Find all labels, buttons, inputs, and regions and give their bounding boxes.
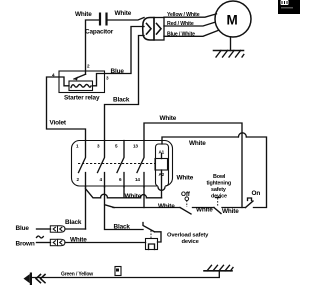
starter relay K2 <box>59 71 105 93</box>
wire pin2 to A2 (white) with hops <box>86 189 162 198</box>
svg-text:White: White <box>177 175 194 182</box>
svg-text:Blue: Blue <box>111 68 125 75</box>
overload switch wire to thermal element <box>155 232 162 242</box>
On switch actuator <box>248 198 252 201</box>
AC symbol <box>37 236 44 238</box>
contactor pole 13-14 <box>137 141 144 188</box>
wire red/white connector to motor <box>164 22 215 26</box>
overload thermal element <box>146 239 158 250</box>
On switch blade <box>246 201 254 208</box>
earth mark box <box>115 267 121 276</box>
wire white: contactor pin 13 up and right to switch row <box>144 123 242 208</box>
svg-text:device: device <box>211 194 227 200</box>
A2 terminal bump on contactor bottom edge <box>158 185 165 187</box>
svg-text:Black: Black <box>114 224 131 231</box>
connector J1 (motor plug) <box>143 18 164 41</box>
earth wire green/yellow <box>32 271 220 278</box>
wire pin6 down to junction <box>123 187 125 198</box>
wire white capacitor to connector <box>108 18 145 21</box>
brown supply lead <box>37 242 51 244</box>
svg-text:Green / Yellow: Green / Yellow <box>61 272 93 278</box>
overload dashed link <box>150 231 152 239</box>
contactor linkage dashed line <box>78 163 156 165</box>
svg-text:Capacitor: Capacitor <box>85 29 114 36</box>
wire yellow/white connector to motor <box>164 14 217 17</box>
svg-text:tightening: tightening <box>207 181 232 187</box>
svg-text:White: White <box>125 193 142 200</box>
earth wire double chevron <box>36 275 45 283</box>
svg-text:White: White <box>115 10 132 17</box>
Off switch actuator <box>185 197 189 207</box>
wire pin4 down to bottom row and overload <box>105 187 144 230</box>
chassis ground (right) <box>204 265 233 271</box>
motor M1 <box>215 1 251 37</box>
contactor pole 1-2 <box>79 141 86 188</box>
wire brown plug to overload element (white) <box>65 242 146 244</box>
contactor coil box <box>155 159 168 171</box>
svg-text:Starter relay: Starter relay <box>64 95 100 102</box>
svg-text:Black: Black <box>113 97 130 104</box>
svg-text:M: M <box>227 13 238 28</box>
wire pin14 down to bottom row <box>143 187 145 208</box>
Bowl switch actuator <box>216 198 221 207</box>
svg-text:device: device <box>182 239 200 245</box>
wire from contactor pin 2 down to blue plug black wire <box>85 187 87 229</box>
contactor pole 5-6 <box>117 141 124 188</box>
svg-text:14: 14 <box>135 177 140 182</box>
svg-text:White: White <box>189 140 206 147</box>
svg-text:Blue: Blue <box>16 225 30 232</box>
svg-text:Off: Off <box>181 191 191 198</box>
contactor coil leads A1-A2 <box>161 154 163 159</box>
label Overload safety device <box>167 233 209 246</box>
blue supply lead <box>37 228 51 230</box>
wire hop (A1 wire over white vertical) <box>238 133 246 137</box>
wire hop over pin4 <box>101 194 108 198</box>
svg-text:White: White <box>196 207 213 214</box>
svg-text:White: White <box>222 208 239 215</box>
svg-text:White: White <box>75 11 92 18</box>
wire white: coil A1 up and right to On switch <box>162 137 267 208</box>
svg-text:Black: Black <box>65 219 82 226</box>
svg-text:On: On <box>252 190 261 197</box>
connector J2 (blue supply) <box>50 226 65 232</box>
overload switch blade <box>143 223 155 232</box>
svg-text:Overload safety: Overload safety <box>167 233 209 239</box>
watermark badge top right <box>278 0 300 14</box>
Off switch blade <box>180 208 191 215</box>
svg-text:White: White <box>158 203 175 210</box>
wire white from relay pin2 up and to capacitor <box>86 20 101 74</box>
svg-text:A1: A1 <box>159 150 165 155</box>
capacitor C1 <box>100 13 107 26</box>
connector J3 (brown supply) <box>50 239 65 245</box>
contactor pole 3-4 <box>98 141 105 188</box>
wire A2 lead down through bump to white wire <box>161 170 163 198</box>
contactor coil compartment <box>156 144 169 186</box>
wire blue/white connector to motor <box>164 31 218 37</box>
svg-text:White: White <box>70 237 87 244</box>
wire violet: relay pin 4 down to contactor pin 1 <box>47 77 86 141</box>
label Bowl tightening safety device <box>207 174 232 200</box>
earth wire arrow <box>24 273 33 286</box>
bottom switch row wire (white) <box>113 207 246 209</box>
wire hop over pin14 <box>141 195 147 198</box>
wire motor to earth <box>230 37 232 51</box>
wire blue plug to contactor pin 2 (black) <box>65 228 86 230</box>
wire black: connector bottom pin down to contactor pin 3 <box>105 36 145 141</box>
Bowl switch blade <box>214 208 221 214</box>
wire blue: connector middle pin down to starter relay pin 3 <box>105 27 145 74</box>
svg-text:White: White <box>160 115 177 122</box>
svg-text:13: 13 <box>133 144 138 149</box>
svg-text:safety: safety <box>211 187 226 193</box>
svg-text:Bowl: Bowl <box>213 174 226 180</box>
svg-text:Brown: Brown <box>16 241 35 248</box>
svg-text:Violet: Violet <box>50 120 67 127</box>
earth ground (motor) <box>214 51 244 58</box>
contactor K1 body <box>72 141 173 187</box>
